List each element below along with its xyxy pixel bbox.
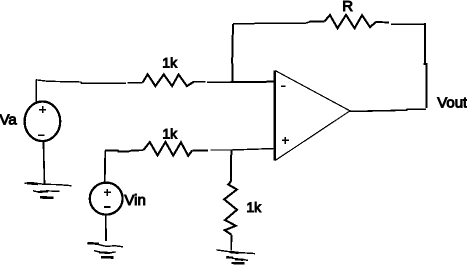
resistor R2 (1k, to non-inverting input) [143, 142, 192, 156]
source Va circle [25, 102, 61, 142]
resistor R3 (1k, vertical to ground) [224, 181, 237, 235]
wire: feedback right vertical down to output [425, 23, 427, 108]
wire: R right to top-right corner [376, 22, 425, 25]
node: inverting input / feedback junction [232, 81, 234, 83]
wire: Va top to resistor R1 left [36, 80, 143, 84]
wire: Vin bottom to ground [105, 215, 107, 242]
wire: Va top vertical drop [35, 80, 37, 102]
op-amp minus sign [281, 85, 285, 87]
ground (below R3) [216, 250, 255, 263]
node: non-inverting junction [230, 149, 232, 151]
wire: junction down to R3 [230, 151, 233, 181]
Va minus sign [38, 134, 45, 136]
wire: feedback left vertical [231, 24, 234, 82]
svg-text:R: R [342, 0, 353, 15]
resistor R1 (1k, to inverting input) [143, 74, 194, 86]
resistor R (feedback) [325, 15, 376, 28]
op-amp U1 [275, 71, 350, 161]
svg-text:1k: 1k [162, 125, 178, 141]
wire: feedback top horizontal [233, 21, 325, 24]
wire: Vin vertical drop [104, 150, 106, 183]
ground (below Va) [24, 183, 71, 198]
wire: op-amp output to Vout [350, 109, 426, 111]
op-amp plus sign [282, 137, 289, 144]
Vin minus sign [104, 206, 111, 208]
svg-text:Vout: Vout [437, 94, 467, 111]
svg-text:Vin: Vin [124, 192, 145, 209]
wire: R3 bottom to ground [230, 235, 232, 251]
wire: R1 right to inverting junction [194, 81, 275, 84]
svg-text:1k: 1k [246, 199, 262, 215]
wire: R2 right to non-inverting junction and op-amp [192, 149, 274, 151]
Va plus sign [39, 106, 46, 113]
Vin plus sign [104, 189, 111, 196]
svg-text:1k: 1k [162, 55, 178, 71]
svg-text:Va: Va [0, 112, 17, 129]
ground (below Vin) [87, 243, 123, 258]
wire: Vin top junction horizontal to R2 [105, 150, 143, 151]
wire: Va bottom to ground [43, 141, 44, 183]
source Vin circle [90, 183, 123, 215]
